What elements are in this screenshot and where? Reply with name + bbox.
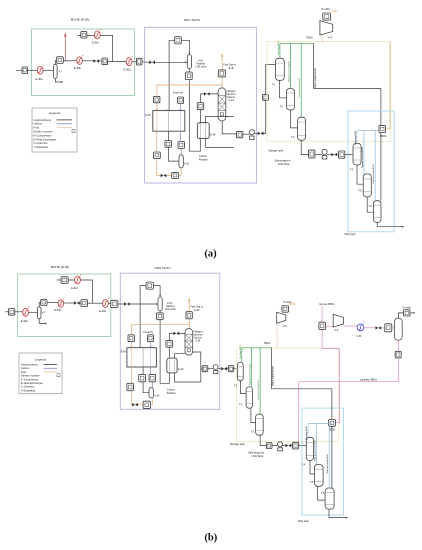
svg-text:MCHE (E-30): MCHE (E-30) — [71, 18, 90, 22]
loading pump (a) — [322, 149, 327, 159]
compressor K (MCHE rounded box) (a) — [56, 57, 63, 64]
wire T-4 bottom to T-5 (b) — [310, 460, 314, 474]
fuel stream box bottom (b) — [143, 401, 150, 408]
V-7 bottom outlet wire — [55, 79, 62, 83]
heat exchanger E-30a (a) — [36, 64, 45, 81]
helium stream box below E-45 (b) — [149, 374, 156, 381]
svg-text:E-45: E-45 — [121, 351, 127, 354]
svg-text:Vapor replacement: Vapor replacement — [271, 366, 274, 386]
BOG line flashing T-4 (b) — [306, 424, 308, 441]
wire valve to box (b ship) — [291, 445, 292, 447]
svg-text:Helium: Helium — [21, 366, 30, 370]
NRU-HeXU boundary box (b) — [120, 266, 220, 410]
separator V-16 (b) — [149, 388, 160, 398]
BOG header storage (b) — [242, 347, 272, 349]
svg-text:Storage tank: Storage tank — [268, 149, 283, 153]
jetty BOG line down to T-6 (a) — [380, 88, 382, 200]
valve after C-31 (b) — [375, 326, 381, 329]
svg-text:E-Heat Exchanger: E-Heat Exchanger — [21, 381, 43, 385]
compressor K-6 (b) — [333, 314, 343, 332]
ship tank T-4 (b) — [302, 437, 314, 466]
wire K-6 to C-31 (b) — [344, 325, 358, 327]
BOG line tank heat leak T-3 (b) — [257, 348, 260, 414]
column bottom outlet riser (b) — [193, 352, 203, 382]
Submerged in LNG Tank label (a) — [275, 159, 292, 167]
stream box below V-19 (b) — [157, 313, 164, 320]
wire E-30b to valve (b) — [64, 302, 74, 304]
excess JBOG line down (b) — [322, 306, 339, 423]
svg-text:Tank heat leak BOG: Tank heat leak BOG — [372, 164, 375, 184]
separator V-7 (a) — [54, 64, 63, 78]
wire pump to valve (b ship row) — [283, 445, 286, 447]
svg-text:Piping heat leak BOG: Piping heat leak BOG — [361, 147, 364, 168]
svg-text:Fuel: Fuel — [21, 370, 27, 374]
wire feed inlet (b) — [5, 311, 8, 313]
separator V-7 (b) — [37, 307, 46, 319]
ship tank T-5 (b) — [310, 465, 323, 487]
wire compressor to E-30b — [63, 60, 76, 62]
svg-text:K-5: K-5 — [328, 37, 332, 40]
wire pump to ship valve (a) — [327, 154, 331, 156]
nitrogen feed valve (a) — [204, 92, 210, 95]
wire E-46 right pass bottom to riser (a) — [206, 139, 234, 148]
pump P NRU outlet (a) — [249, 130, 254, 140]
BOG header storage (a) — [280, 42, 314, 44]
stream box on T-1 feed riser (a) — [262, 95, 268, 101]
stream box on nitrogen line (b) — [166, 340, 173, 347]
compressor suction fuel line (a) — [321, 35, 323, 43]
BOG line flashing T-4 (a) — [355, 130, 357, 144]
ship tank T-6 (b) — [321, 488, 334, 509]
wire feed inlet (a) — [16, 69, 22, 71]
svg-text:To utility: To utility — [321, 8, 330, 11]
fuel gas stream box (a) — [218, 70, 225, 77]
wire box to K-6 (b) — [326, 325, 334, 327]
heat exchanger E-46 (b) — [167, 358, 184, 373]
wire box to flash drum (b) — [392, 327, 395, 329]
svg-text:C-24: C-24 — [195, 339, 201, 342]
storage tank T-2 (a) — [280, 89, 295, 111]
svg-text:E-30b: E-30b — [74, 66, 81, 70]
nitrogen line down through box into E-46 (b) — [168, 333, 170, 358]
ship tank T-5 (a) — [358, 174, 371, 197]
stream box above K-5 (a) — [323, 13, 331, 20]
helium line E-45 bottom to V-16 (b) — [151, 367, 153, 388]
svg-text:E-30: E-30 — [194, 309, 200, 312]
flashed LNG drum V-19 (a) — [187, 55, 206, 69]
svg-text:Reboiler: Reboiler — [167, 392, 176, 395]
svg-text:LNG drum: LNG drum — [165, 308, 176, 311]
fuel stream box above E-45 (a) — [154, 96, 160, 102]
svg-text:Liquefied JBOG: Liquefied JBOG — [360, 378, 377, 381]
stream box on liquefied JBOG line (b) — [395, 351, 401, 358]
svg-text:(a): (a) — [204, 249, 217, 260]
compressor K box top (b NRU) — [146, 282, 154, 289]
valve NRU outlet (a) — [258, 132, 264, 136]
svg-text:Submerged in: Submerged in — [275, 159, 292, 163]
svg-text:K-6: K-6 — [335, 329, 339, 332]
fuel wire valve to box to V-16 bottom (a) — [166, 168, 181, 176]
svg-text:LNG Tank: LNG Tank — [252, 454, 264, 458]
svg-text:Ship tank: Ship tank — [345, 232, 357, 236]
wire into T-1 (b) — [234, 368, 238, 370]
stream box before T-1 (b) — [228, 366, 233, 372]
svg-text:C-24: C-24 — [229, 99, 235, 102]
compressor suction fuel line (b) — [276, 323, 278, 347]
wire compressor to E-30b (b) — [47, 302, 58, 304]
flash drum vapor to utility (b) — [398, 306, 415, 318]
svg-text:Reboiler: Reboiler — [199, 158, 208, 161]
wire box to E-30d with junction (b) — [88, 302, 103, 304]
Column Reboiler label (b) — [167, 389, 176, 396]
ship tank boundary box (b) — [302, 408, 344, 515]
wire E-46 right pass top to column (a) — [206, 116, 234, 122]
JBOG stream box (a) — [379, 126, 387, 139]
MCHE (E-30) boundary box (b) — [18, 265, 111, 336]
ship tank T-4 (a) — [350, 143, 362, 171]
BOG line flashing T-1 (a) — [278, 41, 280, 58]
wire E-30a to V-7 — [43, 69, 53, 71]
storage tank boundary box (b) — [237, 348, 339, 441]
heat exchanger E-46 (a) — [197, 123, 216, 139]
heat exchanger E-30b (b) — [54, 298, 64, 313]
svg-text:To utility: To utility — [283, 301, 292, 304]
svg-text:V-16: V-16 — [155, 394, 161, 397]
svg-text:To utility: To utility — [402, 306, 411, 309]
wire E-45 mid pass to V-16 (a) — [169, 131, 180, 161]
wire C-31 to valve (b) — [364, 327, 375, 329]
ship tank T-6 (a) — [368, 201, 381, 223]
nitrogen injection column C-24 (b) — [185, 329, 203, 356]
svg-text:LNG drum: LNG drum — [196, 66, 207, 69]
svg-text:Excess JBOG: Excess JBOG — [320, 303, 335, 306]
ship feed stream box (a) — [339, 151, 345, 158]
V-7 top wire to compressor box — [55, 61, 56, 65]
fuel stream box bottom (a) — [172, 172, 179, 178]
ship feed stream box (b) — [292, 442, 298, 449]
top loop wire (a MCHE) — [78, 35, 113, 61]
svg-text:Stream number: Stream number — [21, 374, 40, 378]
wire T-4 bottom to T-5 (a) — [357, 165, 363, 184]
heat exchanger E-30c (a) — [92, 29, 101, 45]
wire into T-4 (b) — [299, 445, 307, 447]
wire T-2 bottom to T-3 (b) — [251, 408, 256, 422]
wire E-46 right pass top to column (b) — [175, 354, 185, 358]
svg-text:E-30: E-30 — [229, 67, 235, 70]
fuel line into column top (b) — [188, 319, 191, 329]
wire V-19 bottom to box — [188, 69, 190, 72]
wire E-46 right pass bottom to riser (b) — [175, 373, 201, 382]
ship feed valve (b) — [286, 444, 292, 447]
wire T-1 bottom to T-2 (a) — [279, 80, 286, 97]
wire E-30d to boundary stream box — [132, 61, 137, 63]
svg-text:Submerged in: Submerged in — [248, 451, 265, 455]
stream box at MCHE edge (b) — [111, 300, 118, 307]
svg-text:Ship tank: Ship tank — [298, 519, 310, 523]
Legends box (a) — [32, 108, 77, 152]
ship transfer stream box (a) — [309, 150, 315, 158]
stream box top loop (a) — [81, 32, 87, 38]
svg-text:E-30a: E-30a — [36, 77, 43, 81]
To utility label and fuel arrow (a) — [321, 8, 337, 12]
wire MCHE outlet to NRU valve — [142, 61, 149, 64]
svg-text:Piping heat leak BOG: Piping heat leak BOG — [288, 61, 291, 82]
valve NRU inlet (a) — [149, 61, 155, 65]
valve (MCHE b) — [74, 301, 80, 305]
storage tank T-1 (a) — [272, 58, 285, 86]
transfer pump storage (b) — [278, 442, 283, 451]
valve NRU inlet (b) — [124, 302, 130, 306]
wire box to E-30d with top-loop junction — [108, 61, 127, 63]
BOG line tank heat leak T-6 (a) — [372, 131, 375, 201]
wire valve to stream box (b) — [227, 368, 228, 370]
svg-text:E-30a: E-30a — [21, 319, 28, 323]
vapor replacement line (a) — [314, 43, 381, 88]
wire box to pump (b ship row) — [272, 445, 278, 447]
wire K box left down to E-45 (b) — [140, 286, 146, 348]
crude He stream box (a) — [178, 97, 184, 104]
storage tank T-1 (b) — [234, 362, 243, 387]
wire pump to valve (b) — [218, 368, 221, 370]
helium line E-45 bottom to box to V-16 (a) — [180, 131, 183, 155]
wire box to pump (a) — [243, 133, 250, 135]
stream box above K-5 (b) — [282, 306, 289, 312]
svg-text:E-30c: E-30c — [92, 41, 99, 45]
wire T-5 bottom to T-6 (a) — [367, 197, 373, 212]
wire E-30d to box (b) — [108, 303, 110, 305]
svg-text:Flashing BOG: Flashing BOG — [278, 41, 280, 55]
valve (MCHE a) — [93, 59, 99, 63]
svg-text:Storage tank: Storage tank — [230, 442, 245, 446]
stream box on excess JBOG line (b) — [319, 322, 326, 329]
svg-text:Piping heat leak BOG: Piping heat leak BOG — [248, 364, 251, 385]
svg-text:Crude He: Crude He — [173, 92, 184, 95]
heat exchanger E-30a (b) — [21, 306, 30, 322]
fuel line E-45 bottom left (a) — [157, 131, 161, 175]
fuel stream box lower left (b) — [127, 383, 133, 390]
BOG line tank heat leak T-3 (a) — [298, 43, 301, 117]
wire V-19 to box (b) — [159, 311, 161, 313]
wire valve to V-19 (b) — [130, 303, 157, 305]
wire valve to box (b) — [381, 327, 385, 329]
fuel arrow up (a MCHE) — [64, 33, 67, 62]
stream box below V-19 (a) — [186, 72, 193, 80]
BOG line piping heat leak T-5 (a) — [361, 131, 364, 174]
svg-text:MCHE (E-30): MCHE (E-30) — [51, 265, 70, 269]
pump P NRU outlet (b) — [213, 365, 218, 374]
helium line crude He to E-45 (a) — [180, 104, 182, 111]
To utility label and fuel arrow (b K-5) — [283, 301, 296, 305]
BOG line flashing T-1 (b) — [240, 345, 242, 362]
svg-text:K-5: K-5 — [283, 325, 287, 328]
wire T-2 bottom to T-3 (a) — [291, 110, 298, 128]
helium stream box below E-45 (a) — [178, 142, 184, 149]
stream box after valve (a) — [102, 58, 108, 65]
svg-text:V-16: V-16 — [184, 163, 190, 166]
svg-text:NRU-HeXU: NRU-HeXU — [184, 18, 200, 22]
fuel line E-45 bottom left (b) — [130, 367, 133, 405]
wire E-30b to valve — [82, 60, 93, 62]
vapor replacement line (b) — [271, 348, 332, 389]
fuel valve bottom (a) — [161, 174, 167, 177]
stream box before pump (b) — [202, 366, 208, 372]
svg-text:Piping heat leak BOG: Piping heat leak BOG — [314, 440, 317, 461]
svg-text:JBOG: JBOG — [380, 135, 387, 138]
fuel line into column top (a) — [221, 77, 223, 88]
compressor K-5 (a) — [320, 21, 333, 40]
wire T-1 bottom to T-2 (b) — [241, 381, 247, 394]
wire pump to valve (a) — [254, 132, 257, 134]
svg-text:E-30d: E-30d — [124, 68, 131, 72]
svg-text:(b): (b) — [204, 533, 217, 544]
wire into T-4 (a) — [345, 154, 353, 156]
storage tank T-3 (b) — [251, 414, 264, 435]
stream number box 76 (a) — [22, 67, 28, 74]
wire T-6 bottom outlet arrow (b) — [329, 509, 347, 517]
JBOG stream box (b) — [329, 420, 336, 432]
compressor K-5 (b) — [277, 312, 288, 328]
wire valve to box (a MCHE) — [99, 60, 102, 62]
V-7 top wire to compressor box (b) — [39, 303, 40, 307]
wire box to pump (b) — [208, 368, 214, 370]
Legends box (b) — [19, 353, 62, 394]
svg-text:E-45: E-45 — [145, 114, 151, 117]
column bottom outlet riser (a) — [222, 121, 236, 134]
fuel gas riser with arrow (b) — [188, 298, 203, 312]
fuel line E-45 top to header (b) — [131, 325, 189, 348]
fuel gas stream box (b) — [186, 312, 192, 319]
valve NRU outlet (b) — [221, 367, 227, 371]
wire T-3 bottom to transfer row (a) — [301, 140, 308, 154]
wire T-5 bottom to T-6 (b) — [318, 486, 326, 500]
wire box to loading pump (a) — [315, 154, 322, 156]
stream box top loop (b) — [61, 277, 68, 284]
wire K box right down to V-19 top — [182, 40, 190, 53]
svg-text:TBOG: TBOG — [264, 342, 271, 345]
heat exchanger E-30d (b) — [99, 298, 109, 314]
V-7 bottom outlet wire (b) — [39, 319, 45, 324]
wire E-45 mid pass to V-16 (b) — [143, 367, 149, 393]
MCHE (E-30) boundary box (a) — [32, 18, 135, 96]
svg-text:Tank heat leak BOG: Tank heat leak BOG — [326, 454, 329, 474]
wire valve to box (b MCHE) — [80, 302, 81, 304]
BOG line tank heat leak T-6 (b) — [326, 424, 329, 489]
svg-text:Vapor replacement: Vapor replacement — [314, 68, 317, 88]
fuel line E-45 top to header (a) — [157, 85, 222, 111]
stream number box 76 (b) — [9, 309, 15, 316]
svg-text:TBOG: TBOG — [306, 37, 313, 40]
svg-text:JBOG: JBOG — [329, 429, 336, 432]
svg-text:Legends: Legends — [35, 358, 47, 362]
svg-text:E-30c: E-30c — [71, 286, 78, 290]
wire to E-30a (b) — [15, 311, 23, 313]
svg-text:C-31: C-31 — [356, 335, 362, 338]
compressor K box top (a NRU) — [174, 37, 181, 44]
heat exchanger E-30c (b) — [71, 274, 81, 290]
svg-text:E-46: E-46 — [178, 368, 184, 371]
LNG exchanger E-45 (b) — [121, 347, 157, 368]
svg-text:V-Separator: V-Separator — [21, 388, 35, 392]
crude He stream box (b) — [148, 335, 154, 342]
stream box before pump (a) — [237, 131, 243, 137]
helium line crude He to E-45 (b) — [150, 342, 152, 348]
svg-text:K-Compressor: K-Compressor — [21, 377, 38, 381]
nitrogen line down through box into E-46 (a) — [199, 94, 201, 123]
ship feed valve (a) — [331, 153, 337, 156]
svg-text:Hydrocarbons: Hydrocarbons — [21, 363, 38, 367]
LNG exchanger E-45 (a) — [145, 109, 184, 131]
jetty BOG line down to T-6 (b) — [331, 389, 333, 488]
nitrogen feed valve (b) — [174, 332, 180, 335]
fuel stream box above E-45 (b) — [128, 335, 134, 342]
svg-text:LNG Tank: LNG Tank — [278, 162, 290, 166]
fuel stream box below E-45 left (a) — [154, 152, 161, 158]
top loop wire (b MCHE) — [57, 280, 93, 303]
wire valve up to T-1 (a) — [264, 64, 276, 133]
BOG line piping heat leak T-2 (a) — [288, 43, 291, 88]
svg-text:Tank heat leak BOG: Tank heat leak BOG — [298, 78, 301, 98]
ship tank boundary box (a) — [348, 111, 394, 232]
svg-text:V-Separator: V-Separator — [34, 145, 49, 149]
BOG line piping heat leak T-2 (b) — [248, 348, 251, 387]
compressor K rounded box (b MCHE) — [41, 299, 48, 305]
hydrocarbon stream box below E-45 (a) — [165, 141, 172, 148]
fuel valve bottom (b) — [132, 403, 138, 406]
svg-text:E-30b: E-30b — [54, 308, 61, 312]
nitrogen injection column C-24 (a) — [218, 88, 236, 121]
storage tank boundary box (a) — [267, 42, 391, 142]
stream box between MCHE and NRU (a) — [136, 58, 142, 65]
NRU-HeXU boundary box (a) — [145, 18, 257, 183]
stream box before flash drum (b) — [385, 324, 392, 332]
fuel gas riser with arrow (a) — [221, 53, 237, 70]
separator V-16 (a) — [179, 155, 190, 168]
wire V-19 line down to E-46 left pass — [189, 80, 200, 152]
cooler C-31 (b) — [356, 321, 364, 338]
svg-text:Flashing BOG: Flashing BOG — [240, 345, 242, 359]
svg-text:Crude He: Crude He — [143, 331, 154, 334]
wire V-19 line down to E-46 left pass (b) — [160, 320, 169, 384]
svg-text:Flashing BOG: Flashing BOG — [355, 130, 357, 144]
Submerged in LNG Tank label (b) — [248, 451, 265, 459]
stream box after T-3 (b) — [266, 443, 272, 449]
wire T-3 bottom to transfer row (b) — [260, 435, 266, 445]
fuel wire valve to box to V-16 bottom (b) — [138, 398, 152, 405]
liquefied JBOG line (b) — [299, 340, 399, 445]
Column Reboiler label (a) — [199, 155, 208, 162]
wire K box right down to V-19 top (b) — [154, 286, 161, 296]
wire MCHE to NRU valve (b) — [118, 303, 124, 305]
nitrogen feed wire to column (a) — [200, 93, 218, 95]
wire K box left down to E-45 — [169, 40, 174, 110]
flashed LNG drum V-19 (b) — [158, 297, 176, 311]
svg-text:Flashing BOG: Flashing BOG — [306, 426, 308, 440]
wire valve to box (a ship) — [337, 154, 338, 156]
svg-text:E-30d: E-30d — [99, 309, 106, 313]
JBOG flash drum (b) — [394, 318, 402, 340]
svg-text:Legends: Legends — [49, 111, 61, 115]
hydrocarbon stream box below E-45 (b) — [139, 374, 146, 381]
fuel line to JBOG (a) — [386, 42, 390, 129]
heat exchanger E-30b (a) — [74, 55, 83, 70]
nitrogen feed wire to column (b) — [169, 332, 185, 334]
svg-text:E-46: E-46 — [210, 134, 216, 137]
wire E-30a to V-7 (b) — [29, 311, 38, 313]
svg-text:C-Columns: C-Columns — [21, 385, 35, 389]
storage tank T-3 (a) — [291, 117, 306, 140]
wire T-6 bottom outlet arrow (a) — [377, 222, 403, 226]
svg-text:Tank heat leak BOG: Tank heat leak BOG — [257, 380, 260, 400]
